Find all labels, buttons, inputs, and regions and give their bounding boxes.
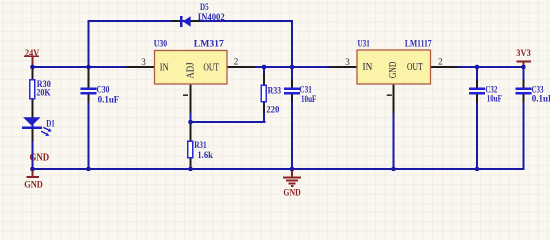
svg-text:10uF: 10uF <box>301 95 317 105</box>
svg-text:20K: 20K <box>36 88 51 98</box>
svg-text:OUT: OUT <box>203 62 219 73</box>
pin C32 top stub <box>476 80 478 88</box>
wire bottom rail <box>32 168 525 170</box>
pin R33 bottom stub <box>263 102 265 113</box>
pin D1 bottom stub <box>32 129 34 141</box>
svg-text:U31: U31 <box>358 40 370 50</box>
pin R30 top stub <box>32 69 34 79</box>
svg-text:IN: IN <box>363 62 373 73</box>
junction node C32 bottom <box>475 167 480 172</box>
svg-text:D5: D5 <box>200 3 209 13</box>
resistor R30 <box>30 80 51 99</box>
pin R31 top stub <box>190 124 192 141</box>
capacitor C30 <box>81 86 120 106</box>
resistor R31 <box>188 141 214 161</box>
capacitor C33 <box>516 86 550 105</box>
junction node U31 GND bottom <box>391 167 396 172</box>
pin U30 ADJ stub <box>190 84 192 113</box>
junction node C33 top <box>521 65 526 70</box>
regulator U30 <box>141 40 238 96</box>
svg-text:U30: U30 <box>154 40 167 50</box>
pin U30 OUT stub <box>227 66 255 68</box>
wire ADJ horizontal <box>190 121 266 123</box>
svg-text:220: 220 <box>266 106 279 116</box>
junction node rail left <box>30 167 35 172</box>
svg-text:LM1117: LM1117 <box>405 40 432 50</box>
svg-text:GND: GND <box>388 61 399 78</box>
junction node C31 top <box>290 65 295 70</box>
svg-text:LM317: LM317 <box>194 40 224 50</box>
wire top-right vertical <box>291 20 293 68</box>
pin R30-D1 stub <box>32 99 34 118</box>
svg-text:R33: R33 <box>268 86 282 96</box>
junction node C32 top <box>475 65 480 70</box>
svg-text:GND: GND <box>24 181 43 191</box>
diode D5 <box>180 3 225 27</box>
junction node C30 top <box>86 65 91 70</box>
svg-text:3V3: 3V3 <box>516 49 531 59</box>
pin C30 bottom stub <box>88 94 90 102</box>
pin R31 bottom stub <box>190 158 192 167</box>
wire ADJ vertical <box>190 84 192 170</box>
junction node C30 bottom <box>86 167 91 172</box>
wire C33 branch upper <box>523 66 525 88</box>
pin C30 top stub <box>88 69 90 88</box>
svg-text:0.1uF: 0.1uF <box>532 95 550 105</box>
pin U30 IN stub <box>126 66 154 68</box>
svg-text:IN: IN <box>160 62 169 73</box>
svg-text:1.6k: 1.6k <box>197 151 213 161</box>
pin U31 OUT stub <box>431 66 458 68</box>
wire main rail <box>32 66 525 68</box>
svg-text:GND: GND <box>283 189 301 199</box>
wire top-left vertical <box>88 20 90 68</box>
svg-text:2: 2 <box>438 57 443 67</box>
wire C30 branch upper <box>88 66 90 88</box>
pin U31 IN stub <box>329 66 357 68</box>
LED D1 <box>22 117 55 136</box>
svg-text:10uF: 10uF <box>487 95 502 105</box>
wire R33 branch <box>263 66 265 123</box>
pin U31 GND stub <box>393 84 395 113</box>
svg-text:D1: D1 <box>46 120 55 130</box>
resistor R33 <box>261 85 281 115</box>
wire C31 branch upper <box>291 66 293 88</box>
capacitor C32 <box>469 86 502 105</box>
wire C32 branch lower <box>476 94 478 170</box>
pin C31 top stub <box>291 80 293 88</box>
capacitor C31 <box>284 86 317 105</box>
junction node 24V/R30 <box>30 65 35 70</box>
power port 3V3 <box>516 49 531 67</box>
svg-text:ADJ: ADJ <box>185 62 196 78</box>
wire C30 branch lower <box>88 94 90 170</box>
wire C31 branch lower <box>291 94 293 170</box>
junction node R33 top <box>262 65 267 70</box>
junction node R31 bottom <box>188 167 193 172</box>
svg-text:24V: 24V <box>25 49 39 59</box>
pin C33 top stub <box>523 80 525 88</box>
wire C32 branch upper <box>476 66 478 88</box>
svg-text:2: 2 <box>234 57 239 67</box>
pin C31 bottom stub <box>291 94 293 102</box>
regulator U31 <box>345 40 442 96</box>
pin C33 bottom stub <box>523 94 525 102</box>
pin D5 left stub <box>171 20 180 22</box>
power port 24V <box>24 49 39 67</box>
svg-text:OUT: OUT <box>407 62 423 73</box>
power port GND bar (bottom left) <box>24 169 43 191</box>
junction node ADJ <box>188 120 193 125</box>
svg-text:R31: R31 <box>194 141 207 151</box>
wire U31 GND branch <box>393 84 395 170</box>
svg-text:C30: C30 <box>96 86 109 96</box>
svg-text:3: 3 <box>141 57 146 67</box>
pin R33 top stub <box>263 74 265 85</box>
junction node C31 bottom <box>290 167 295 172</box>
power port GND earth (center) <box>283 169 301 199</box>
wire R30 LED branch <box>32 66 34 170</box>
svg-text:GND: GND <box>30 153 50 164</box>
wire top bypass horizontal <box>88 20 294 22</box>
svg-text:3: 3 <box>345 57 350 67</box>
svg-text:0.1uF: 0.1uF <box>98 95 120 105</box>
svg-text:IN4002: IN4002 <box>198 13 225 23</box>
wire C33 branch lower <box>523 94 525 170</box>
pin C32 bottom stub <box>476 94 478 102</box>
pin D5 right stub <box>191 20 200 22</box>
